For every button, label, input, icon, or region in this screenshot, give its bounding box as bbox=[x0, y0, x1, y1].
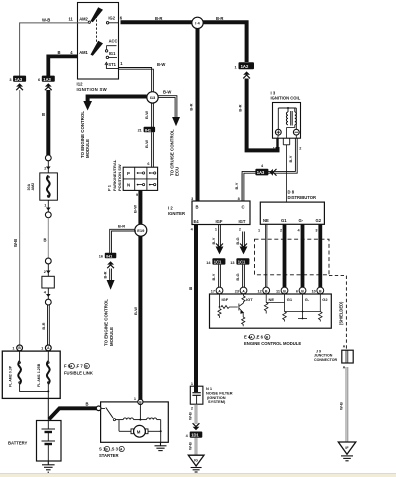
svg-text:13: 13 bbox=[230, 261, 234, 265]
wire to fuse box bbox=[47, 218, 49, 258]
G- column bbox=[302, 294, 304, 319]
wire from P/N switch to junction E19 bbox=[138, 190, 142, 224]
svg-text:B-R: B-R bbox=[102, 271, 107, 278]
ECM pin 10 B bbox=[312, 287, 324, 294]
svg-text:2: 2 bbox=[239, 228, 241, 232]
wire W-B to ground bbox=[195, 438, 197, 455]
shield drain dashed to junction connector J9 bbox=[329, 276, 346, 350]
svg-text:B-Y: B-Y bbox=[211, 273, 216, 280]
svg-text:B: B bbox=[44, 238, 47, 243]
starter labels bbox=[99, 446, 124, 458]
ECM internal circuitry bbox=[218, 294, 322, 326]
svg-text:AM2: AM2 bbox=[31, 183, 35, 191]
secondary winding bbox=[294, 108, 296, 112]
wire B-Y from coil pin 2 to igniter pin C bbox=[242, 138, 297, 201]
svg-text:B: B bbox=[58, 50, 61, 55]
park/neutral position switch P1 bbox=[123, 167, 157, 190]
svg-text:1: 1 bbox=[234, 65, 236, 69]
svg-text:21: 21 bbox=[138, 129, 142, 133]
wire B-R from IG2 to junction I4 bbox=[121, 20, 193, 24]
shield (dashed) around distributor wires bbox=[255, 239, 330, 275]
ECM pin 23 A bbox=[235, 287, 247, 294]
HT lead to distributor bbox=[286, 145, 288, 202]
wire G- (thick) bbox=[301, 224, 305, 287]
svg-text:E4: E4 bbox=[194, 219, 200, 224]
svg-text:1A3: 1A3 bbox=[15, 77, 23, 82]
ground (ignition system) bbox=[188, 455, 204, 472]
svg-text:SYSTEM): SYSTEM) bbox=[208, 399, 226, 404]
starter S1/S3 bbox=[96, 399, 168, 442]
branch B-R to engine control module bbox=[110, 229, 136, 253]
connector 1A2 bbox=[234, 62, 254, 78]
connector 1D1 bbox=[186, 432, 203, 439]
svg-text:I12: I12 bbox=[77, 82, 84, 87]
starter ground bbox=[155, 442, 167, 450]
svg-text:DISTRIBUTOR: DISTRIBUTOR bbox=[288, 195, 317, 200]
svg-text:IGF: IGF bbox=[222, 297, 229, 302]
svg-text:W-B: W-B bbox=[188, 442, 193, 450]
svg-text:B-R: B-R bbox=[118, 224, 125, 229]
svg-text:10: 10 bbox=[312, 290, 316, 294]
svg-text:B: B bbox=[196, 205, 199, 210]
svg-text:FUSIBLE LINK: FUSIBLE LINK bbox=[64, 371, 93, 376]
contacts row P bbox=[137, 172, 139, 174]
svg-text:IH1: IH1 bbox=[145, 127, 152, 132]
svg-text:G-: G- bbox=[299, 218, 304, 223]
junction connector I13 bbox=[147, 92, 158, 103]
svg-text:IG2: IG2 bbox=[108, 16, 115, 21]
IG2 contact bbox=[106, 22, 108, 24]
pins bbox=[277, 135, 280, 138]
connector 1A3 (second) bbox=[38, 76, 55, 91]
svg-text:IGT: IGT bbox=[239, 219, 246, 224]
connector IH1 (pin 2) bbox=[138, 127, 156, 133]
svg-text:FL AM1 1.25B: FL AM1 1.25B bbox=[37, 363, 41, 387]
svg-text:W-B: W-B bbox=[13, 239, 18, 247]
page bottom edge strip bbox=[0, 474, 396, 477]
svg-text:11: 11 bbox=[69, 16, 74, 21]
battery feed junction + wire to starter bbox=[47, 398, 49, 420]
IG1 contact bbox=[106, 56, 108, 58]
svg-text:IG: IG bbox=[194, 459, 198, 463]
svg-text:3: 3 bbox=[315, 229, 317, 233]
svg-text:12: 12 bbox=[257, 290, 261, 294]
svg-text:B-W: B-W bbox=[144, 111, 149, 119]
svg-text:IGNITION SW: IGNITION SW bbox=[77, 87, 108, 92]
svg-text:,E 6: ,E 6 bbox=[256, 334, 264, 339]
wire B from AM1 pin 4 to connector 1A3 bbox=[48, 56, 77, 76]
svg-text:NE: NE bbox=[269, 297, 275, 302]
svg-text:CONNECTOR: CONNECTOR bbox=[314, 358, 337, 362]
wire B-R down to fusible link pin A bbox=[48, 305, 50, 345]
svg-text:17: 17 bbox=[211, 290, 215, 294]
svg-text:E19: E19 bbox=[137, 228, 145, 233]
svg-text:B-W: B-W bbox=[163, 90, 171, 95]
svg-text:C: C bbox=[242, 205, 245, 210]
svg-text:23: 23 bbox=[235, 290, 239, 294]
svg-text:1C1: 1C1 bbox=[238, 260, 246, 265]
svg-text:IGNITION COIL: IGNITION COIL bbox=[271, 96, 301, 101]
ECM pin 17 A bbox=[211, 287, 223, 294]
svg-text:G1: G1 bbox=[281, 218, 287, 223]
wire B down to FL MAIN bbox=[46, 90, 50, 155]
contacts row N bbox=[137, 184, 139, 186]
svg-text:ECU: ECU bbox=[174, 167, 179, 176]
svg-text:B-G: B-G bbox=[235, 273, 240, 280]
wire G1 (thick) bbox=[283, 224, 287, 287]
wire NE (thin) bbox=[265, 224, 267, 287]
svg-text:P: P bbox=[127, 171, 130, 176]
ACC contact bbox=[107, 46, 117, 50]
svg-text:B-Y: B-Y bbox=[288, 155, 293, 162]
svg-text:NE: NE bbox=[263, 218, 269, 223]
contact lever bbox=[101, 407, 105, 409]
svg-text:2: 2 bbox=[191, 407, 193, 411]
minus terminal bbox=[293, 129, 299, 135]
fusible link FL MAIN 2.0L bbox=[40, 155, 58, 218]
svg-text:G1: G1 bbox=[287, 297, 293, 302]
ECM label bbox=[244, 334, 301, 346]
svg-text:B-W: B-W bbox=[132, 205, 137, 213]
svg-text:B-R: B-R bbox=[188, 103, 193, 110]
wire B-R down to ignition coil pin 1 bbox=[247, 79, 278, 151]
svg-text:B: B bbox=[301, 289, 304, 293]
wire B from igniter E4 down to noise filter bbox=[194, 225, 198, 393]
wire G2 (thick) bbox=[318, 224, 322, 287]
svg-text:B: B bbox=[265, 289, 268, 293]
wire B-R with arrow to ECM bbox=[110, 269, 112, 282]
small fuse box bbox=[42, 258, 54, 305]
connector 1A3 (coil) bbox=[255, 164, 276, 176]
svg-text:POSITION SW: POSITION SW bbox=[117, 164, 122, 191]
rails bbox=[139, 404, 141, 419]
svg-text:9: 9 bbox=[136, 193, 138, 197]
svg-text:M: M bbox=[137, 429, 141, 434]
NE column bbox=[265, 294, 267, 303]
svg-text:16: 16 bbox=[99, 255, 103, 259]
svg-text:AM1: AM1 bbox=[79, 50, 88, 55]
fusible link F6/F7 box bbox=[2, 345, 60, 398]
svg-text:B: B bbox=[42, 112, 45, 117]
svg-text:6: 6 bbox=[147, 162, 149, 166]
svg-text:B-G: B-G bbox=[235, 237, 240, 244]
wire down to starter terminal bbox=[138, 236, 142, 399]
wire B-G from igniter IGT bbox=[243, 232, 245, 248]
svg-text:A: A bbox=[242, 289, 245, 293]
svg-text:2: 2 bbox=[44, 270, 46, 274]
wire W-B from AM2 pin 11 to connector 1A3 bbox=[20, 23, 89, 76]
svg-text:B-R: B-R bbox=[238, 104, 243, 111]
plus terminal bbox=[275, 129, 281, 135]
ECM pin 6 B bbox=[296, 287, 306, 294]
svg-text:B-W: B-W bbox=[133, 307, 138, 315]
svg-text:IH1: IH1 bbox=[106, 253, 113, 258]
wire B-W to park/neutral switch bbox=[152, 132, 154, 167]
junction connector E19 bbox=[135, 224, 147, 236]
wire W-B from J9 to ground bbox=[346, 367, 348, 442]
svg-text:W-B: W-B bbox=[42, 17, 50, 22]
svg-text:MODULE: MODULE bbox=[85, 139, 90, 158]
svg-text:11: 11 bbox=[276, 290, 280, 294]
svg-text:8: 8 bbox=[238, 197, 240, 201]
svg-text:B-W: B-W bbox=[157, 62, 165, 67]
svg-text:1: 1 bbox=[258, 229, 260, 233]
connector 1A3 (left) bbox=[9, 76, 26, 91]
motor bbox=[134, 425, 146, 437]
svg-text:MODULE: MODULE bbox=[109, 327, 114, 346]
svg-text:,F 7: ,F 7 bbox=[76, 364, 84, 369]
ECM pin 11 B bbox=[276, 287, 288, 294]
svg-text:D 8: D 8 bbox=[288, 190, 295, 195]
svg-text:N: N bbox=[127, 183, 130, 188]
connector IC1 (13) bbox=[230, 258, 249, 265]
svg-text:B-Y: B-Y bbox=[234, 182, 239, 189]
svg-text:W-B: W-B bbox=[339, 402, 344, 410]
svg-text:1: 1 bbox=[273, 147, 275, 151]
svg-text:B-R: B-R bbox=[41, 322, 46, 329]
ST1 contact bbox=[106, 64, 118, 69]
svg-text:2: 2 bbox=[280, 229, 282, 233]
svg-text:IGNITER: IGNITER bbox=[168, 211, 185, 216]
svg-text:3: 3 bbox=[191, 197, 193, 201]
svg-text:G-: G- bbox=[305, 297, 310, 302]
svg-text:1: 1 bbox=[191, 382, 193, 386]
svg-text:IG1: IG1 bbox=[109, 51, 116, 56]
wire B-W down from I13 to connector IH1 bbox=[152, 103, 154, 127]
svg-text:W-B: W-B bbox=[188, 412, 193, 420]
svg-text:B-R: B-R bbox=[216, 16, 223, 21]
ignition coil I3 bbox=[271, 90, 301, 100]
svg-text:1A3: 1A3 bbox=[43, 77, 51, 82]
ECM pin 12 B bbox=[257, 287, 269, 294]
igniter I2 bbox=[168, 206, 185, 216]
svg-text:STARTER: STARTER bbox=[99, 453, 118, 458]
wire to cruise control ecu (right arm) bbox=[158, 96, 177, 118]
svg-text:A: A bbox=[218, 289, 221, 293]
svg-text:1D1: 1D1 bbox=[191, 433, 199, 438]
svg-text:1A2: 1A2 bbox=[241, 64, 249, 69]
svg-text:1: 1 bbox=[134, 397, 136, 401]
svg-text:FL AM2 0.3P: FL AM2 0.3P bbox=[9, 365, 13, 387]
core bbox=[290, 111, 292, 126]
distributor D8 bbox=[288, 190, 317, 200]
wire B-Y from igniter IGF bbox=[219, 225, 221, 248]
wire B-W from ST1 to junction I13 bbox=[119, 68, 154, 92]
svg-text:1C1: 1C1 bbox=[214, 260, 222, 265]
wire W-B down left side to fusible link pin B bbox=[19, 90, 21, 345]
wire W-B to ground connector bbox=[195, 404, 197, 424]
primary winding bbox=[287, 108, 289, 112]
svg-text:BATTERY: BATTERY bbox=[8, 441, 28, 446]
svg-text:1: 1 bbox=[215, 228, 217, 232]
svg-text:IGF: IGF bbox=[216, 219, 223, 224]
svg-text:ACC: ACC bbox=[109, 39, 118, 44]
hold-in coil bbox=[147, 418, 157, 420]
svg-text:B-R: B-R bbox=[155, 16, 162, 21]
svg-text:6: 6 bbox=[296, 290, 298, 294]
battery ground bbox=[42, 461, 55, 472]
HT terminal stub bbox=[282, 138, 284, 145]
svg-text:B: B bbox=[283, 289, 286, 293]
svg-text:1: 1 bbox=[41, 346, 43, 350]
svg-text:1A3: 1A3 bbox=[257, 170, 265, 175]
connector IC1 (14) bbox=[206, 258, 225, 265]
svg-text:I 2: I 2 bbox=[168, 206, 173, 211]
svg-text:,S 3: ,S 3 bbox=[111, 447, 119, 452]
svg-text:I13: I13 bbox=[150, 95, 156, 100]
engine control module E4/E6 bbox=[210, 294, 332, 328]
svg-text:I 4: I 4 bbox=[195, 21, 200, 26]
top rail bbox=[278, 107, 296, 109]
svg-text:G2: G2 bbox=[316, 218, 322, 223]
svg-text:B-W: B-W bbox=[144, 140, 149, 148]
svg-text:B: B bbox=[319, 289, 322, 293]
svg-text:ST1: ST1 bbox=[108, 62, 116, 67]
pull-in coil bbox=[123, 418, 133, 420]
wire to engine control module (left arm) bbox=[88, 97, 147, 103]
G1 column bbox=[284, 294, 286, 312]
battery bbox=[37, 421, 62, 462]
G2 column bbox=[319, 294, 321, 312]
svg-text:G2: G2 bbox=[322, 297, 328, 302]
wire B-R from I4 to right drop bbox=[203, 22, 247, 62]
svg-text:B: B bbox=[189, 286, 192, 291]
svg-text:2: 2 bbox=[299, 147, 301, 151]
svg-text:(SHIELDED): (SHIELDED) bbox=[338, 301, 343, 325]
svg-text:AM2: AM2 bbox=[79, 16, 88, 21]
connector IH1 (pin 16) bbox=[99, 253, 117, 268]
ground (shield drain) bbox=[338, 442, 356, 461]
svg-text:ENGINE CONTROL MODULE: ENGINE CONTROL MODULE bbox=[244, 341, 301, 346]
wire B-R from I4 down to igniter pin B bbox=[196, 29, 200, 201]
svg-text:B: B bbox=[86, 402, 89, 407]
svg-text:IGT: IGT bbox=[246, 297, 253, 302]
fusible link label bbox=[64, 363, 93, 375]
junction connector I4 bbox=[192, 17, 203, 28]
ignition switch I12 bbox=[78, 3, 119, 80]
svg-text:2: 2 bbox=[44, 167, 46, 171]
svg-text:B-Y: B-Y bbox=[211, 237, 216, 244]
svg-text:1: 1 bbox=[12, 346, 14, 350]
svg-text:1: 1 bbox=[44, 204, 46, 208]
